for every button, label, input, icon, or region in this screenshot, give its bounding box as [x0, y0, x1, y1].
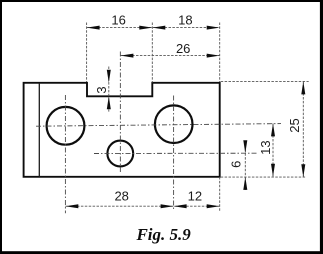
arrowheads — [65, 26, 305, 209]
arrow 26 right — [207, 54, 220, 58]
arrow 18 left — [152, 26, 165, 30]
centerline vertical right hole — [173, 96, 175, 212]
hole small (center) — [107, 141, 133, 167]
svg-text:28: 28 — [114, 189, 128, 204]
arrow 13 bottom (points down) — [271, 164, 275, 177]
dimension line 3 (vertical) — [108, 67, 110, 112]
dimension line 26 — [120, 55, 219, 57]
dimension line 13 (vertical) — [272, 123, 274, 176]
svg-text:25: 25 — [287, 118, 302, 132]
dimension line 28/12 — [65, 205, 219, 207]
arrow 12 left — [174, 204, 187, 208]
svg-text:3: 3 — [94, 86, 109, 93]
svg-text:6: 6 — [229, 161, 244, 168]
arrow 26 left — [120, 54, 133, 58]
arrow 12 right — [207, 204, 220, 208]
arrow 6 bottom (outside, points up) — [243, 177, 247, 190]
arrow 25 top (points up) — [301, 81, 305, 94]
interior step line — [38, 83, 40, 177]
arrow 16 left — [87, 26, 100, 30]
arrow 6 top (outside, points down) — [243, 140, 247, 153]
hole left (large) — [47, 107, 85, 145]
dimension line 16/18 — [87, 27, 220, 29]
centerline horizontal main — [36, 124, 281, 127]
extension line right edge above — [219, 23, 221, 83]
arrow 25 bottom (points down) — [301, 164, 305, 177]
extension line notch left — [86, 23, 88, 83]
svg-text:18: 18 — [178, 12, 192, 27]
svg-text:Fig. 5.9: Fig. 5.9 — [135, 225, 191, 244]
svg-text:26: 26 — [176, 41, 190, 56]
extension line bottom edge rightwards — [221, 176, 306, 178]
extension line top edge rightwards — [221, 80, 309, 82]
arrow 28 left — [65, 204, 78, 208]
arrow 3 top (outside, points down) — [107, 70, 111, 83]
svg-text:16: 16 — [111, 12, 125, 27]
centerline vertical small hole — [119, 52, 121, 173]
centerline horizontal small hole — [94, 152, 258, 154]
plate outline with top notch — [24, 83, 220, 177]
dimension line 25 (vertical) — [302, 81, 304, 177]
centerline vertical left hole — [64, 95, 66, 213]
arrow 16 right — [139, 26, 152, 30]
extension line right edge below — [219, 177, 221, 212]
hole right (large) — [155, 105, 193, 143]
arrow 18 right — [207, 26, 220, 30]
arrow 13 top (points up) — [271, 123, 275, 136]
arrow 3 bottom (outside, points up) — [107, 96, 111, 109]
svg-text:13: 13 — [258, 140, 273, 154]
svg-text:12: 12 — [188, 189, 202, 204]
dimension line 6 (vertical) — [244, 142, 246, 191]
arrow 28 right — [161, 204, 174, 208]
extension line notch right — [151, 23, 153, 83]
